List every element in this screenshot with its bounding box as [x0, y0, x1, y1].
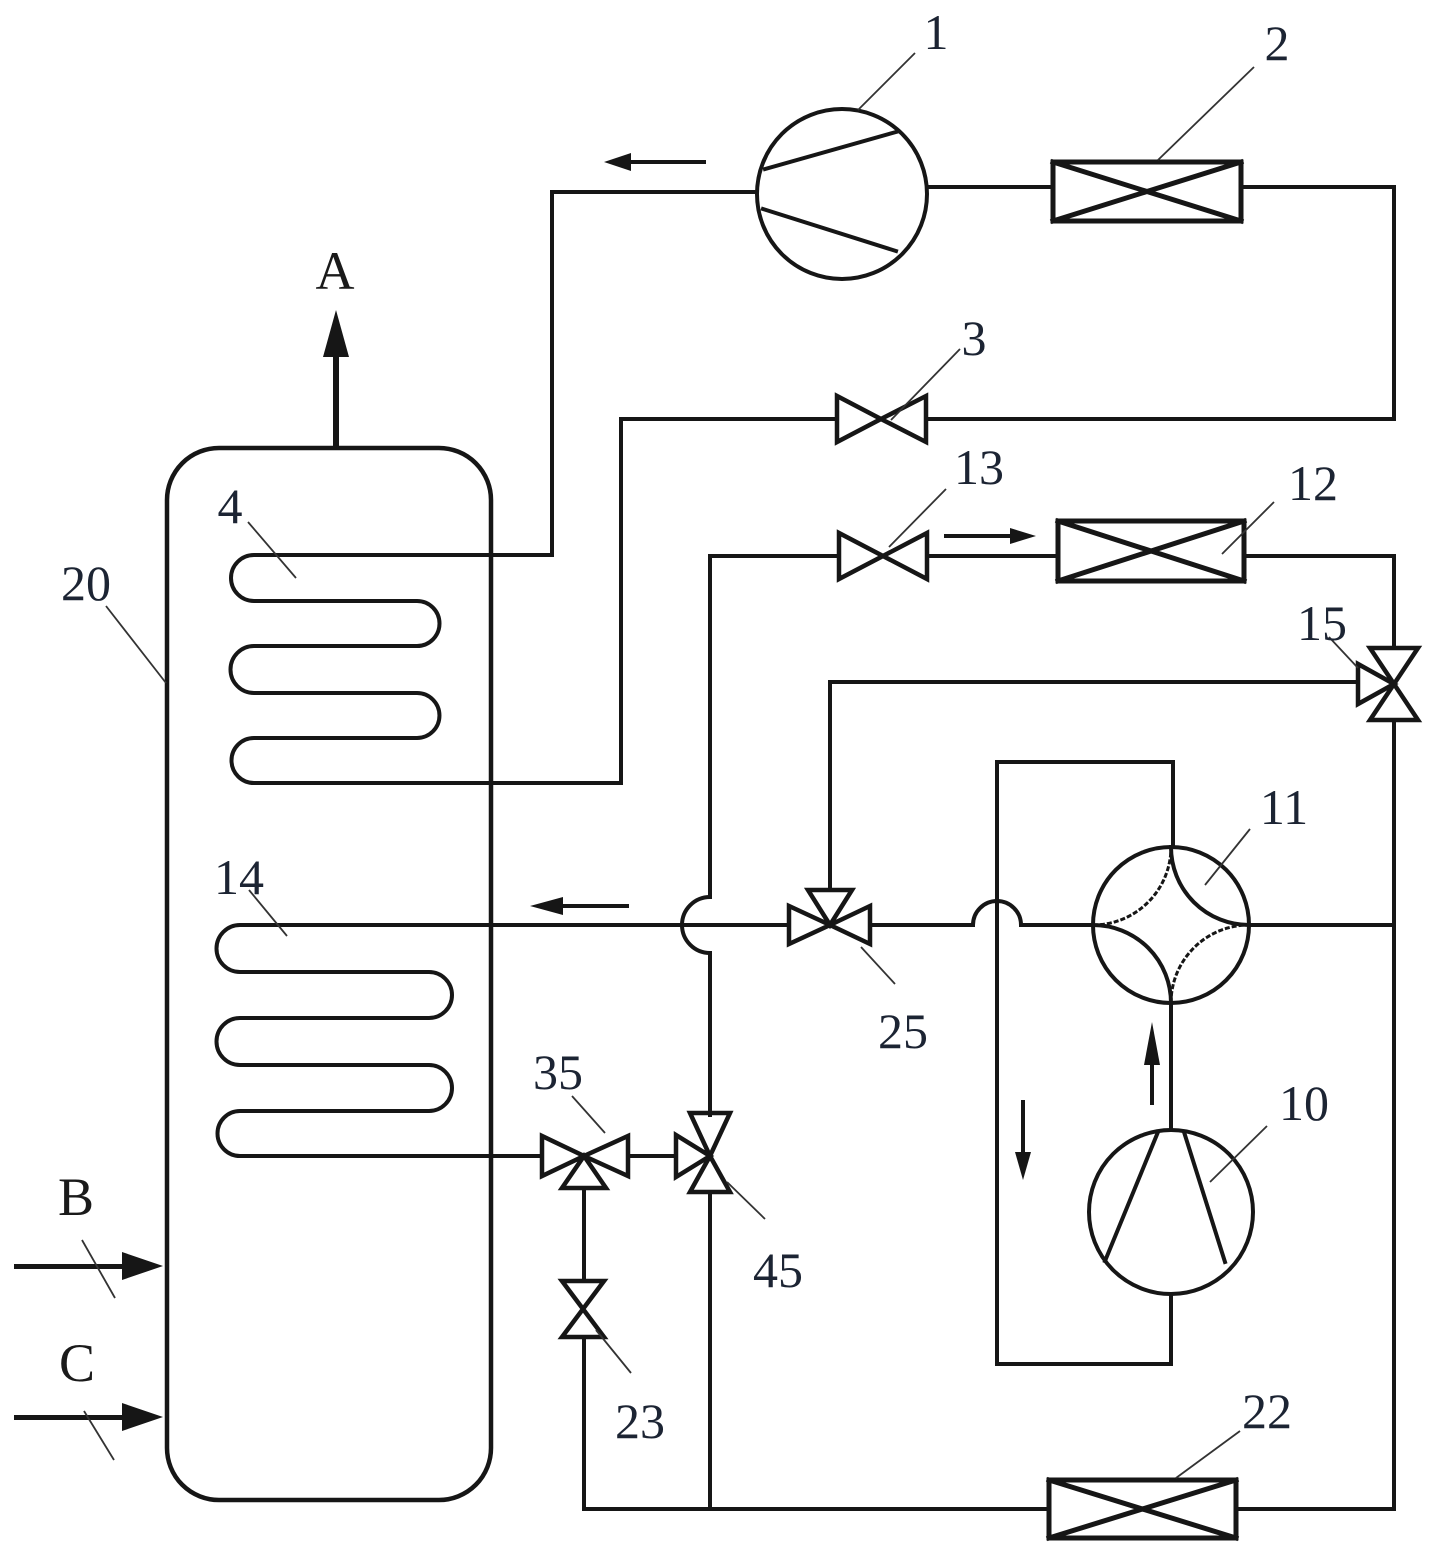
- svg-text:45: 45: [753, 1242, 803, 1298]
- svg-text:3: 3: [962, 310, 987, 366]
- svg-text:4: 4: [218, 478, 243, 534]
- svg-text:35: 35: [533, 1044, 583, 1100]
- compressor 1: [757, 109, 927, 279]
- inner loop: 4way top port up, left across, down left side, bottom across, up to comp10 bottom: [997, 762, 1173, 1364]
- svg-text:2: 2: [1265, 15, 1290, 71]
- svg-text:20: 20: [61, 555, 111, 611]
- wire valve25 right with hop over x997 to 4way left port: [870, 923, 1093, 927]
- arrow B into tank: [14, 1264, 122, 1269]
- valve 3: [837, 396, 926, 442]
- heat exchanger 22: [1049, 1480, 1236, 1538]
- svg-text:1: 1: [924, 4, 949, 60]
- arrow left of compressor 1: [630, 160, 706, 164]
- valve 23: [562, 1281, 604, 1337]
- wire valve3 left, corner down to coil4 bottom bar: [621, 419, 837, 783]
- svg-text:14: 14: [214, 849, 264, 905]
- svg-text:22: 22: [1242, 1383, 1292, 1439]
- arrow down (inner loop left): [1021, 1100, 1025, 1154]
- valve 13: [839, 533, 927, 579]
- svg-text:A: A: [316, 241, 355, 301]
- wire valve35-valve45 short link: [628, 1154, 676, 1158]
- arrow left above coil 14: [562, 904, 629, 908]
- svg-text:11: 11: [1260, 779, 1308, 835]
- four-way valve 11: [1093, 847, 1249, 1003]
- wire valve45 bottom down to bottom wire: [708, 1192, 712, 1509]
- heat exchanger 12: [1058, 521, 1244, 581]
- valve 15 (3-way): [1358, 648, 1418, 720]
- heat exchanger 2: [1053, 162, 1241, 221]
- coil 4 serpentine: [230, 555, 621, 783]
- wire valve35 bottom to valve23 top: [582, 1188, 586, 1281]
- valve 35 (3-way): [542, 1136, 628, 1188]
- valve 45 (3-way): [676, 1113, 730, 1192]
- tank 20 vessel: [167, 448, 491, 1500]
- compressor 10: [1089, 1130, 1253, 1294]
- wire HX2 right, down right side, left to valve3: [926, 187, 1394, 419]
- wire valve15 left horizontal to loop corner, down to valve25 top: [830, 682, 1358, 890]
- svg-text:B: B: [58, 1167, 94, 1227]
- svg-text:15: 15: [1297, 595, 1347, 651]
- valve 25 (3-way): [789, 890, 870, 944]
- wire 4way bottom port to comp10 top: [1169, 1003, 1173, 1130]
- arrow right of valve 13: [944, 534, 1012, 538]
- svg-text:23: 23: [615, 1393, 665, 1449]
- wire compressor1 right to HX2: [927, 185, 1053, 189]
- wire 4way right port to right line: [1249, 923, 1394, 927]
- coil 14 serpentine: [217, 925, 790, 1156]
- wire compressor1 left to corner down to coil4 top: [552, 192, 757, 555]
- svg-text:10: 10: [1279, 1075, 1329, 1131]
- wire valve23 bottom, corner right along bottom to HX22 left: [584, 1337, 1049, 1509]
- arrow C into tank: [14, 1415, 122, 1420]
- svg-text:25: 25: [878, 1003, 928, 1059]
- arrow A out of tank top: [333, 356, 339, 448]
- wire valve13 right to HX12: [927, 554, 1058, 558]
- svg-text:C: C: [59, 1333, 95, 1393]
- hop of horizontal wire over vertical line at (997,925): [973, 901, 1021, 925]
- arrow up (to 4way bottom): [1150, 1062, 1154, 1105]
- wire HX12 right, corner down to valve15 top: [1244, 556, 1394, 648]
- wire valve15 bottom down right side to HX22 right: [1236, 720, 1394, 1509]
- arrows: [14, 153, 1160, 1431]
- svg-text:13: 13: [954, 439, 1004, 495]
- wire valve13 left, corner down, hop over y925, to valve45 top: [710, 556, 839, 1115]
- hop of vertical line over horizontal wire at (710,925): [682, 897, 710, 953]
- svg-text:12: 12: [1288, 455, 1338, 511]
